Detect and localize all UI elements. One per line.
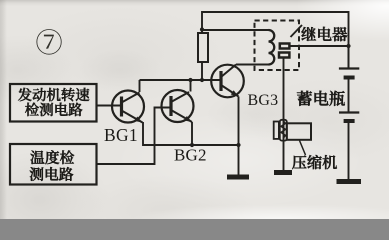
svg-text:BG2: BG2 bbox=[174, 146, 207, 165]
svg-text:BG1: BG1 bbox=[104, 125, 138, 145]
svg-text:BG3: BG3 bbox=[248, 92, 279, 109]
